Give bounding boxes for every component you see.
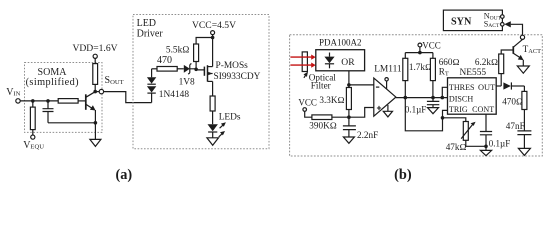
transistor Q1 NPN	[86, 92, 96, 111]
svg-text:Driver: Driver	[137, 28, 164, 39]
label SYN	[451, 16, 472, 27]
wire TACT collector to SACT	[511, 24, 523, 35]
wire emitter down	[94, 110, 96, 123]
label SACT	[484, 19, 500, 29]
junction output-R1.7k	[404, 96, 408, 100]
timer NE555 box	[448, 78, 497, 114]
wire TACT emitter to ground	[522, 60, 524, 66]
label (a)	[115, 167, 132, 183]
wire VCC rails	[405, 47, 433, 58]
svg-text:TRIG: TRIG	[449, 105, 468, 114]
label LM111	[374, 65, 402, 75]
transistor P-MOS pair	[204, 65, 212, 81]
potentiometer 47k	[461, 122, 475, 147]
terminal NOUT	[501, 15, 505, 19]
capacitor 0.1uF (CONT)	[480, 114, 492, 150]
wire zener to P-MOS gate	[190, 69, 205, 70]
wire R load to collector node	[94, 84, 96, 91]
arrow into SACT	[504, 21, 511, 27]
terminal VCC	[211, 31, 215, 35]
svg-text:47nF: 47nF	[506, 121, 525, 131]
wire VDD to R1	[94, 58, 96, 63]
resistor 470	[157, 67, 177, 72]
terminal VDD	[93, 54, 97, 58]
wire 5.5k to gate node	[195, 62, 197, 70]
wire OUT stub	[496, 85, 501, 87]
junction VIN-cap	[46, 99, 50, 103]
label SOUT	[105, 75, 124, 86]
label LED Driver	[137, 18, 164, 40]
label SI9933CDY	[214, 72, 261, 82]
pin label THRES	[449, 83, 475, 92]
svg-text:0.1µF: 0.1µF	[489, 139, 510, 149]
svg-text:1V8: 1V8	[179, 78, 195, 88]
svg-text:LED: LED	[137, 18, 156, 29]
capacitor 2.2nF	[343, 117, 356, 137]
wire VIN rail	[20, 100, 58, 102]
junction TRIG-pot	[441, 116, 445, 120]
wire SOUT to LED driver	[104, 92, 152, 103]
wire emitter to ground	[94, 123, 96, 140]
label 3.3KOhm	[319, 95, 344, 105]
label LEDs	[219, 113, 241, 123]
label 470	[157, 55, 172, 66]
pin label OUT	[478, 83, 495, 92]
svg-text:47kΩ: 47kΩ	[446, 142, 467, 152]
diode at OUT	[503, 82, 524, 89]
junction emitter-cap rail	[94, 121, 98, 125]
wire pot rail	[443, 118, 466, 122]
terminal VIN	[16, 99, 20, 103]
wire R470 to zener	[177, 68, 184, 70]
resistor R load	[93, 64, 98, 85]
svg-text:VCC=4.5V: VCC=4.5V	[192, 20, 236, 31]
wire VCC to R390K	[305, 111, 312, 117]
label 660Ohm	[439, 57, 460, 67]
svg-text:(a): (a)	[115, 167, 132, 183]
wire THRES stub	[442, 87, 447, 97]
label 390KOhm	[309, 121, 336, 131]
svg-text:470: 470	[157, 55, 172, 66]
label VEQU	[23, 140, 44, 151]
op-amp LM111 comparator	[374, 78, 396, 116]
block SYN box	[443, 10, 502, 31]
pin label TRIG	[449, 105, 468, 114]
wire VCC rail to R 5.5k	[196, 38, 213, 45]
resistor Requ	[30, 107, 35, 130]
label VIN	[6, 87, 20, 98]
svg-text:Filter: Filter	[311, 81, 331, 91]
ground under 0.1uF left	[428, 108, 439, 114]
wire PDA output down	[348, 71, 350, 85]
svg-text:NE555: NE555	[460, 68, 487, 78]
label VCC=4.5V	[192, 20, 236, 31]
label 1V8	[179, 78, 195, 88]
wire VCC down	[212, 35, 214, 38]
wire TRIG stub and feedback detour	[405, 98, 447, 131]
svg-text:SOUT: SOUT	[105, 75, 124, 86]
terminal SOUT	[99, 89, 103, 93]
label VCC (390K)	[298, 98, 317, 108]
junction VCC split	[418, 51, 422, 55]
SOMA block box	[25, 63, 103, 133]
svg-text:RT: RT	[439, 67, 449, 78]
LM111 power stub	[386, 81, 388, 89]
wire node down to R3.3K	[348, 85, 350, 88]
LED emission arrows	[219, 122, 226, 137]
svg-text:OUT: OUT	[478, 83, 495, 92]
wire R6.2k to OUT node	[500, 74, 502, 86]
label Optical Filter	[309, 73, 336, 91]
junction collector node	[93, 90, 97, 94]
resistor 390K	[312, 115, 332, 120]
svg-text:LM111: LM111	[374, 65, 402, 75]
resistor 1.7k	[403, 58, 408, 80]
ground under LM111	[383, 111, 392, 117]
svg-text:1N4148: 1N4148	[159, 90, 190, 100]
wire R3.3K to divider node	[348, 110, 350, 118]
LED D1	[208, 124, 218, 138]
svg-text:0.1µF: 0.1µF	[405, 105, 426, 115]
wire R660 to output rail	[432, 81, 434, 98]
svg-text:3.3KΩ: 3.3KΩ	[319, 95, 344, 105]
ground under Q1	[90, 139, 101, 146]
resistor 6.2k	[499, 54, 504, 74]
svg-text:660Ω: 660Ω	[439, 57, 460, 67]
ground under LEDs	[207, 138, 219, 146]
LM111 ground stub	[387, 105, 389, 111]
pin label CONT	[472, 105, 494, 114]
terminal SACT	[501, 23, 505, 27]
wire cap rail	[48, 122, 95, 124]
label 0.1uF (CONT)	[489, 139, 510, 149]
resistor R base	[58, 99, 78, 104]
label NOUT	[484, 12, 502, 22]
label NE555	[460, 68, 487, 78]
photodetector PDA100A2 box	[316, 50, 365, 71]
ground under 2.2nF	[343, 137, 354, 143]
wire R390K to divider node	[332, 116, 349, 118]
zener diode 1V8	[184, 64, 192, 75]
receiver block box	[290, 35, 543, 156]
pin label DISCH	[449, 94, 473, 103]
svg-text:P-MOSs: P-MOSs	[216, 61, 249, 71]
svg-text:VCC: VCC	[298, 98, 317, 108]
svg-text:VIN: VIN	[6, 87, 20, 98]
terminal VCC (390K)	[303, 108, 307, 112]
svg-text:DISCH: DISCH	[449, 94, 473, 103]
svg-text:VDD=1.6V: VDD=1.6V	[72, 43, 117, 54]
svg-text:VEQU: VEQU	[23, 140, 44, 151]
terminal LM111 V+	[385, 78, 388, 81]
capacitor 0.1uF (left)	[427, 98, 439, 108]
label 5.5kOhm	[166, 46, 190, 56]
resistor LED series	[210, 96, 215, 111]
capacitor C1 plates	[43, 109, 54, 112]
wire R6.2k to TACT base	[501, 50, 513, 54]
ground under 47nF	[518, 148, 530, 155]
svg-text:470Ω: 470Ω	[502, 97, 523, 107]
wire node to LM111 minus	[349, 84, 374, 86]
wire diode top to R470	[152, 68, 157, 70]
svg-text:OR: OR	[341, 57, 355, 68]
svg-text:390KΩ: 390KΩ	[309, 121, 336, 131]
wire collector node to SOUT	[95, 91, 99, 93]
svg-text:(b): (b)	[394, 167, 412, 183]
svg-text:THRES: THRES	[449, 83, 475, 92]
wire Requ to VEQU	[32, 130, 34, 135]
node VDD=1.6V label	[72, 43, 117, 54]
svg-text:2.2nF: 2.2nF	[357, 130, 378, 140]
terminal SACT boundary	[520, 35, 524, 39]
wire pot to CONT ground rail	[466, 145, 486, 147]
label 2.2nF	[357, 130, 378, 140]
label (b)	[394, 167, 412, 183]
label 1N4148	[159, 90, 190, 100]
wire LM111 output rail	[396, 97, 448, 99]
wire resistor to LED	[212, 111, 214, 124]
svg-text:1.7kΩ: 1.7kΩ	[409, 62, 432, 72]
label 1.7kOhm	[409, 62, 432, 72]
svg-text:LEDs: LEDs	[219, 113, 241, 123]
label 6.2kOhm	[475, 57, 498, 67]
label P-MOSs	[216, 61, 249, 71]
terminal VEQU	[31, 135, 35, 139]
wire base resistor to Q1	[78, 100, 86, 102]
svg-text:SI9933CDY: SI9933CDY	[214, 72, 261, 82]
label 47kOhm	[446, 142, 467, 152]
junction divider node	[347, 115, 351, 119]
optical input red arrow 1	[290, 55, 315, 60]
label 470Ohm (b)	[502, 97, 523, 107]
resistor 470 (b)	[522, 91, 527, 109]
wire R1.7k to output rail	[404, 81, 406, 98]
capacitor 47nF	[517, 110, 531, 149]
wire diode to 470	[523, 86, 525, 91]
resistor 660 RT	[430, 58, 435, 80]
label SOMA (simplified)	[26, 67, 79, 88]
resistor 3.3K	[346, 88, 351, 110]
LED Driver box	[133, 15, 269, 149]
svg-text:SYN: SYN	[451, 16, 472, 27]
terminal VCC (555)	[418, 43, 422, 47]
svg-text:PDA100A2: PDA100A2	[319, 38, 362, 48]
resistor 5.5k	[194, 44, 199, 62]
ground under CONT	[480, 150, 491, 155]
junction VIN-Requ	[31, 99, 35, 103]
label VCC (555)	[422, 41, 441, 51]
diodes 1N4148	[147, 69, 156, 103]
wire P-MOS source down	[212, 81, 214, 96]
junction CONT rail	[484, 145, 488, 149]
junction output-660	[431, 96, 435, 100]
capacitor C1 leads	[47, 101, 49, 123]
wire VCC to P-MOS drain	[212, 38, 214, 67]
label OR	[341, 57, 355, 68]
transistor TACT	[513, 39, 523, 60]
junction output-THRES	[441, 96, 445, 100]
label RT	[439, 67, 449, 78]
junction PDA output node	[347, 83, 351, 87]
junction gate node	[194, 68, 198, 72]
optical input red arrow 2	[290, 63, 315, 68]
label TACT	[523, 44, 542, 55]
junction VCC rail	[211, 36, 215, 40]
svg-text:(simplified): (simplified)	[26, 77, 79, 88]
callout arrow to filter	[304, 72, 309, 78]
label 47nF	[506, 121, 525, 131]
wire divider node to plus riser	[349, 108, 374, 118]
svg-text:6.2kΩ: 6.2kΩ	[475, 57, 498, 67]
label 0.1uF (left)	[405, 105, 426, 115]
photodiode symbol	[324, 53, 334, 69]
ground under TACT	[517, 66, 529, 73]
label PDA100A2	[319, 38, 362, 48]
svg-text:VCC: VCC	[422, 41, 441, 51]
svg-text:TACT: TACT	[523, 44, 542, 55]
optical filter plate	[302, 52, 307, 72]
svg-text:CONT: CONT	[472, 105, 494, 114]
wire to resistor Requ	[32, 101, 34, 107]
